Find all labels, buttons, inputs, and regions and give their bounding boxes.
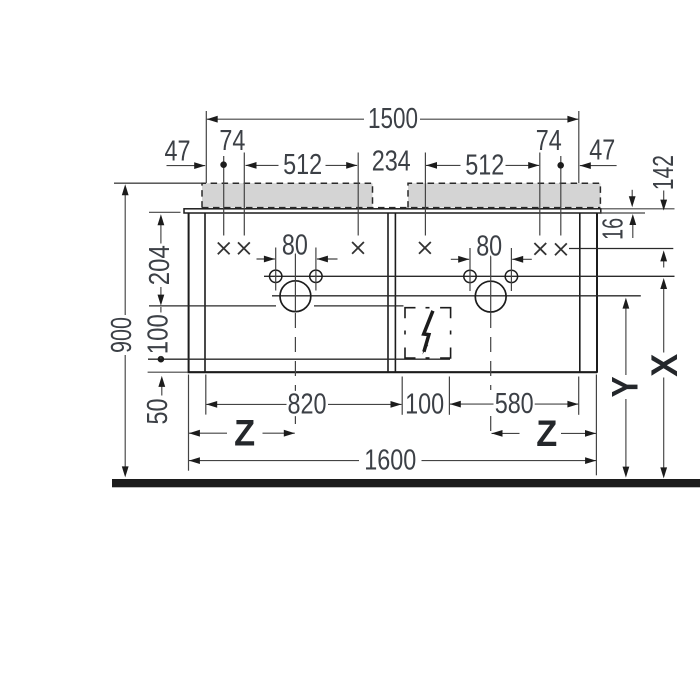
basin centre row line [272, 295, 641, 297]
basin centreline right (dashed) [490, 313, 492, 431]
countertop bottom line extension right [597, 212, 645, 214]
hole extension line E [539, 153, 541, 236]
dim 1600 ext left [188, 375, 190, 471]
dim label 820 [288, 389, 327, 421]
dim 16 arrows [629, 190, 636, 238]
cabinet right inner panel line [579, 214, 581, 373]
floor line [112, 479, 700, 487]
lightning bolt symbol [422, 311, 433, 355]
hole extension line D [424, 153, 426, 236]
cabinet bottom edge [188, 371, 597, 373]
svg-text:Z: Z [234, 413, 255, 454]
dim label 100 bottom [405, 388, 444, 420]
hole mark x6 [555, 243, 567, 255]
faucet hole circle left-1 [270, 270, 282, 282]
cabinet left outer side [188, 213, 190, 373]
dim 1500 line+arrows [207, 116, 579, 123]
dim 100 left line [160, 307, 162, 359]
faucet hole circle right-1 [464, 270, 476, 282]
basin centreline right (solid) [490, 247, 492, 312]
svg-text:X: X [644, 353, 685, 376]
dim 80 left [257, 256, 338, 263]
countertop top line extension right [601, 208, 675, 210]
basin drain circle left [280, 281, 311, 312]
drill dot right [557, 162, 564, 169]
hole extension line B [243, 153, 245, 236]
dim 820 line+arrows [206, 401, 401, 408]
cabinet middle divider right line [394, 214, 396, 373]
dim label 47 right [589, 134, 615, 166]
dim 47 right [580, 162, 617, 169]
drill dot lower-left [158, 356, 165, 363]
dim 512 right [426, 162, 539, 169]
countertop slab [184, 209, 601, 213]
dim 900 line+arrows [122, 184, 129, 477]
dim 1600 line+arrows [189, 457, 596, 464]
wall reference line [114, 182, 202, 184]
hole extension line A [223, 156, 225, 236]
dim label Y [604, 376, 645, 397]
svg-text:16: 16 [598, 218, 630, 240]
dim 47 left [167, 162, 206, 169]
svg-text:900: 900 [106, 317, 138, 353]
svg-text:47: 47 [589, 134, 615, 166]
dim label X [644, 353, 685, 376]
lower hole row line [149, 305, 404, 307]
dim 820 ext right [401, 377, 403, 415]
basin drain circle right [475, 281, 506, 312]
dim label Z left [234, 413, 255, 454]
dim label 512 right [465, 149, 504, 181]
dim Z left line+arrows [189, 430, 295, 437]
dim label 234 [372, 146, 411, 178]
mounting strip right (dashed, gray) [408, 183, 600, 207]
faucet centreline right-2 [510, 248, 512, 291]
basin centreline left (dashed) [294, 313, 296, 431]
dim 580 ext right [578, 377, 580, 415]
svg-text:74: 74 [536, 125, 562, 157]
svg-text:512: 512 [465, 149, 504, 181]
dim 50 arrow [158, 376, 165, 396]
dim 1600 ext right [595, 375, 597, 476]
dim label 74 right [536, 125, 562, 157]
svg-text:50: 50 [142, 399, 174, 425]
faucet centreline left-2 [315, 248, 317, 291]
cabinet bottom extension left [148, 371, 188, 373]
svg-text:820: 820 [288, 389, 327, 421]
dim label 50 [142, 399, 174, 425]
basin centreline left (solid) [294, 247, 296, 312]
dim 204 line+arrows [158, 214, 165, 305]
hole extension line C [357, 153, 359, 236]
dim Z right line+arrows [492, 430, 597, 437]
dim 100 ext right [448, 377, 450, 415]
dim label 16 [598, 218, 630, 240]
dim label 80 right [476, 230, 502, 262]
dim label 580 [495, 388, 534, 420]
cabinet left inner panel line [204, 214, 206, 373]
dim label 100 left [143, 314, 175, 354]
dim label 512 left [283, 149, 322, 181]
top hole row line (right) [569, 248, 673, 250]
dim label Z right [536, 413, 557, 454]
dim label 74 left [219, 125, 245, 157]
svg-text:80: 80 [282, 230, 308, 262]
svg-text:100: 100 [405, 388, 444, 420]
electrical connection box (dash-dot) [405, 308, 451, 358]
dim label 1500 [368, 103, 418, 135]
svg-text:Y: Y [604, 376, 645, 397]
dim 820 ext left [205, 375, 207, 415]
svg-text:580: 580 [495, 388, 534, 420]
dim label 80 left [282, 230, 308, 262]
dim 1500 extension left [205, 111, 207, 183]
svg-text:1500: 1500 [368, 103, 418, 135]
dim Y line+arrows [623, 298, 630, 478]
dim label 47 left [165, 135, 191, 167]
svg-text:74: 74 [219, 125, 245, 157]
svg-text:142: 142 [648, 155, 680, 190]
faucet hole circle left-2 [310, 270, 322, 282]
drill dot left [220, 161, 227, 168]
faucet hole row line [264, 275, 675, 277]
svg-text:Z: Z [536, 413, 557, 454]
faucet hole circle right-2 [505, 270, 517, 282]
hole mark x5 [534, 243, 546, 255]
dim label 1600 [364, 444, 416, 476]
cabinet middle divider left line [387, 214, 389, 373]
svg-text:47: 47 [165, 135, 191, 167]
mounting strip left (dashed, gray) [202, 183, 373, 207]
countertop bottom extension left [149, 211, 181, 213]
dim 580 line+arrows [450, 401, 579, 408]
svg-text:204: 204 [144, 245, 176, 285]
hole mark x1 [218, 243, 230, 255]
dim 512 left [246, 162, 358, 169]
svg-text:512: 512 [283, 149, 322, 181]
hole mark x4 [419, 242, 431, 254]
dim label 204 [144, 245, 176, 285]
svg-text:100: 100 [143, 314, 175, 354]
hole mark x3 [352, 242, 364, 254]
mounting strip bottom dashed line [202, 207, 600, 209]
svg-text:234: 234 [372, 146, 411, 178]
hole mark x2 [238, 242, 250, 254]
dim label 900 [106, 317, 138, 353]
svg-text:1600: 1600 [364, 444, 416, 476]
dim label 142 [648, 155, 680, 190]
bottom hole row line [148, 358, 450, 360]
dim X line+arrows [660, 250, 667, 478]
svg-text:80: 80 [476, 230, 502, 262]
faucet centreline left-1 [275, 248, 277, 291]
faucet centreline right-1 [469, 248, 471, 291]
hole extension line F [560, 156, 562, 236]
dim 80 right [451, 256, 532, 263]
cabinet right outer side [596, 213, 598, 373]
dim 142 arrow [660, 191, 667, 211]
dim 1500 extension right [578, 111, 580, 183]
